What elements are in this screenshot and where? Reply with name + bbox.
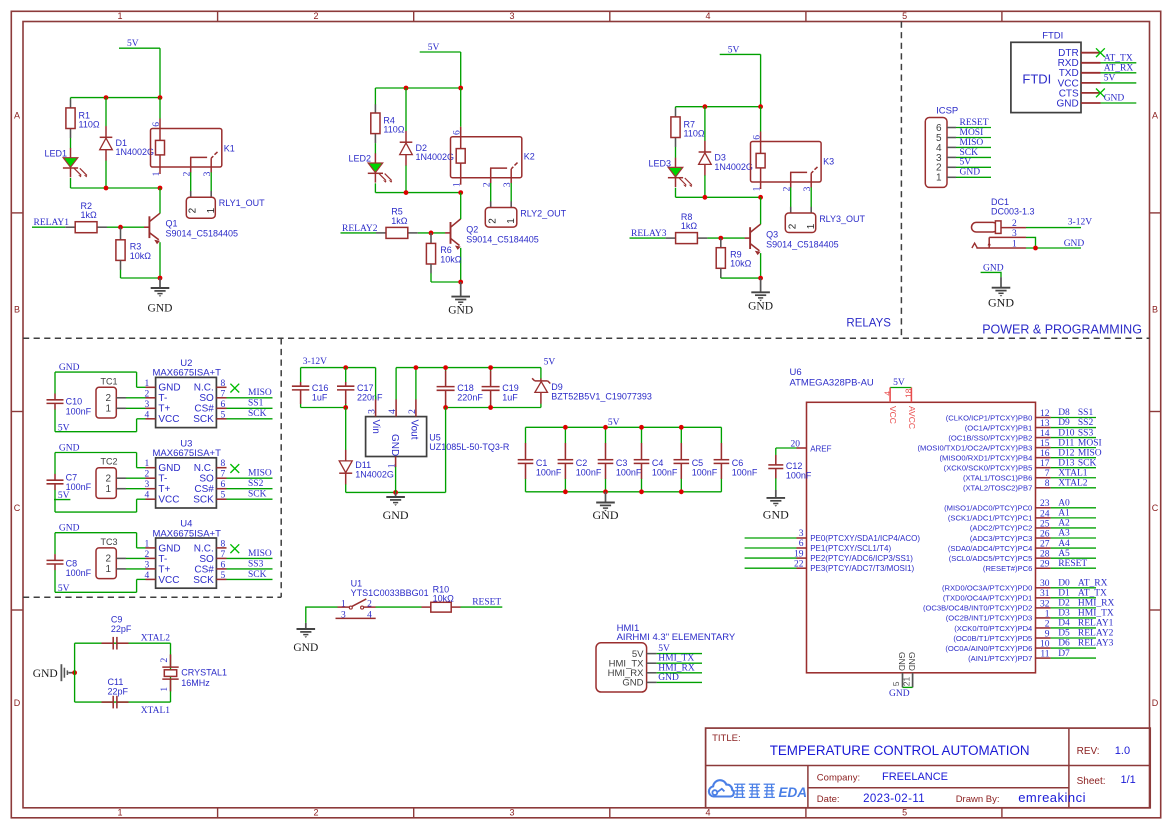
capacitor C16: [292, 368, 329, 408]
svg-text:8: 8: [1045, 479, 1050, 489]
svg-text:2: 2: [367, 599, 372, 609]
junction: [414, 365, 419, 370]
connector RLY1_OUT: [186, 191, 265, 218]
pin 1: [146, 386, 156, 388]
wire: [405, 88, 407, 131]
wire: [760, 107, 762, 132]
svg-text:A5: A5: [1058, 549, 1070, 559]
wire: [790, 187, 792, 207]
svg-text:7: 7: [221, 550, 226, 560]
svg-text:2: 2: [187, 207, 198, 213]
connector TC1: [96, 376, 126, 418]
svg-text:1: 1: [1045, 609, 1050, 619]
svg-text:Q2: Q2: [466, 224, 478, 234]
wire: [1051, 587, 1096, 589]
svg-text:SS3: SS3: [1078, 428, 1094, 438]
wire: [745, 537, 797, 539]
pin 4: [395, 399, 397, 416]
junction: [563, 425, 568, 430]
svg-text:1: 1: [145, 379, 150, 389]
svg-text:6: 6: [752, 135, 762, 140]
svg-text:2: 2: [1045, 619, 1050, 629]
svg-text:6: 6: [221, 480, 226, 490]
svg-text:HMI_RX: HMI_RX: [1078, 599, 1115, 609]
no-connect flag N.C.: [230, 544, 239, 553]
pin 3: [989, 236, 1026, 238]
relay K1: [151, 119, 235, 177]
svg-text:RLY2_OUT: RLY2_OUT: [520, 208, 566, 218]
wire: [956, 156, 991, 158]
svg-text:AT_TX: AT_TX: [1104, 53, 1133, 63]
wire: [1051, 617, 1096, 619]
wire: [1051, 597, 1096, 599]
wire: [107, 226, 144, 228]
svg-text:S9014_C5184405: S9014_C5184405: [166, 229, 239, 239]
svg-text:VCC: VCC: [158, 495, 179, 506]
svg-text:FREELANCE: FREELANCE: [882, 771, 948, 783]
svg-text:SCK: SCK: [1078, 458, 1097, 468]
svg-text:10kΩ: 10kΩ: [130, 251, 152, 261]
svg-text:(OC3B/OC4B/INT0/PTCXY)PD2: (OC3B/OC4B/INT0/PTCXY)PD2: [923, 604, 1032, 613]
pin 15 PB3: [1036, 447, 1051, 449]
junction: [429, 231, 434, 236]
wire: [776, 447, 797, 449]
pin 5 GND: [902, 673, 904, 688]
svg-text:SCK: SCK: [248, 409, 267, 419]
wire: [126, 397, 146, 399]
wire: [136, 372, 138, 387]
junction: [758, 195, 763, 200]
svg-text:ATMEGA328PB-AU: ATMEGA328PB-AU: [790, 378, 874, 389]
svg-text:2: 2: [145, 470, 150, 480]
wire: [1101, 82, 1137, 84]
svg-text:25: 25: [1040, 519, 1050, 529]
wire 5V stub: [720, 53, 761, 55]
svg-text:5: 5: [902, 11, 907, 21]
pin 3: [375, 399, 377, 416]
pin 21 GND: [912, 673, 914, 688]
svg-text:2: 2: [487, 218, 498, 224]
capacitor C8: [47, 554, 92, 578]
pin 4: [146, 418, 156, 420]
wire: [1051, 517, 1096, 519]
svg-text:5V: 5V: [544, 358, 556, 368]
wire: [190, 172, 192, 191]
pin 9 PD5: [1036, 637, 1051, 639]
wire: [74, 643, 76, 702]
svg-text:C1: C1: [536, 458, 548, 468]
svg-text:U5: U5: [429, 433, 441, 443]
svg-text:SCK: SCK: [960, 148, 979, 158]
svg-text:PE2(PTCY/ADC6/ICP3/SS1): PE2(PTCY/ADC6/ICP3/SS1): [810, 554, 913, 563]
wire: [704, 107, 706, 141]
resistor R8: [666, 212, 708, 244]
pin 2: [146, 397, 156, 399]
LED LED2: [349, 153, 393, 182]
svg-text:D7: D7: [1058, 649, 1070, 659]
svg-text:RELAY3: RELAY3: [1078, 639, 1114, 649]
svg-text:GND: GND: [383, 508, 409, 522]
pin 4 VCC: [889, 388, 891, 403]
svg-text:B: B: [1152, 305, 1158, 315]
svg-text:30: 30: [1040, 579, 1050, 589]
junction: [458, 86, 463, 91]
svg-text:D: D: [14, 698, 21, 708]
svg-text:C19: C19: [502, 383, 519, 393]
svg-text:100nF: 100nF: [616, 468, 642, 478]
resistor R1: [66, 99, 100, 138]
svg-text:(XCK0/SCK0/PTCXY)PB5: (XCK0/SCK0/PTCXY)PB5: [944, 464, 1033, 473]
pin 2: [146, 477, 156, 479]
resistor R9: [716, 238, 751, 278]
wire mid rail: [375, 192, 460, 194]
wire: [1051, 547, 1096, 549]
svg-text:HMI_RX: HMI_RX: [658, 663, 695, 673]
no-connect flag N.C.: [230, 384, 239, 393]
svg-text:D10: D10: [1058, 428, 1075, 438]
pin 7 PB6: [1036, 477, 1051, 479]
wire: [704, 175, 706, 197]
svg-text:8: 8: [221, 459, 226, 469]
pin 4: [146, 578, 156, 580]
wire: [460, 88, 462, 127]
svg-text:(OC1A/PTCXY)PB1: (OC1A/PTCXY)PB1: [965, 423, 1033, 432]
resistor R6: [426, 233, 461, 274]
wire: [301, 407, 346, 409]
svg-text:100nF: 100nF: [576, 468, 602, 478]
svg-text:D9: D9: [1058, 418, 1070, 428]
svg-text:XTAL2: XTAL2: [1058, 478, 1088, 488]
svg-text:5: 5: [221, 491, 226, 501]
wire: [490, 183, 492, 202]
resistor R4: [371, 104, 405, 143]
junction: [639, 489, 644, 494]
svg-text:3: 3: [145, 560, 150, 570]
svg-text:PE0(PTCXY/SDA1/ICP4/ACO): PE0(PTCXY/SDA1/ICP4/ACO): [810, 534, 920, 543]
svg-text:2: 2: [787, 223, 798, 229]
svg-text:MISO: MISO: [960, 138, 984, 148]
junction: [443, 365, 448, 370]
pin 6 PE1: [797, 547, 807, 549]
wire: [657, 662, 702, 664]
wire: [54, 410, 56, 432]
no-connect flag DTR: [1096, 48, 1105, 57]
wire: [1051, 527, 1096, 529]
svg-text:XTAL1: XTAL1: [141, 706, 171, 716]
wire: [374, 183, 376, 192]
svg-text:GND: GND: [389, 434, 400, 456]
svg-text:UZ1085L-50-TQ3-R: UZ1085L-50-TQ3-R: [429, 442, 510, 452]
svg-text:5: 5: [221, 410, 226, 420]
wire: [375, 368, 377, 400]
pin 3: [146, 407, 156, 409]
wire: [306, 607, 338, 623]
svg-text:(OC0B/T1/PTCXY)PD5: (OC0B/T1/PTCXY)PD5: [953, 634, 1032, 643]
ground (regulator): [383, 492, 409, 522]
svg-text:GND: GND: [158, 543, 180, 554]
connector TC3: [96, 537, 126, 579]
wire: [54, 570, 56, 592]
wire: [70, 98, 72, 100]
wire: [395, 467, 397, 493]
svg-text:GND: GND: [622, 678, 643, 689]
svg-text:4: 4: [882, 391, 892, 396]
pin 17 PB5: [1036, 467, 1051, 469]
pin 2: [415, 399, 417, 416]
svg-text:10kΩ: 10kΩ: [730, 259, 752, 269]
junction: [703, 104, 708, 109]
svg-text:(AIN1/PTCXY)PD7: (AIN1/PTCXY)PD7: [968, 654, 1032, 663]
wire: [675, 147, 677, 158]
svg-text:(ADC2/PTCY)PC2: (ADC2/PTCY)PC2: [970, 524, 1032, 533]
junction: [458, 190, 463, 195]
wire: [120, 270, 122, 278]
svg-text:6: 6: [152, 122, 162, 127]
wire: [1051, 637, 1096, 639]
svg-text:K3: K3: [823, 157, 834, 167]
junction: [158, 186, 163, 191]
capacitor C6: [714, 427, 758, 492]
relay K2: [451, 127, 535, 187]
wire: [136, 533, 138, 548]
capacitor C10: [47, 394, 92, 417]
wire: [810, 187, 812, 207]
svg-text:1: 1: [105, 564, 111, 575]
svg-text:8: 8: [221, 539, 226, 549]
wire: [956, 146, 991, 148]
svg-text:5: 5: [221, 571, 226, 581]
svg-text:1: 1: [117, 11, 122, 21]
svg-text:XTAL2: XTAL2: [141, 634, 171, 644]
svg-text:2: 2: [145, 389, 150, 399]
svg-text:GND: GND: [158, 383, 180, 394]
svg-text:1kΩ: 1kΩ: [81, 210, 98, 220]
junction: [639, 425, 644, 430]
wire: [137, 467, 146, 469]
svg-text:C17: C17: [357, 383, 374, 393]
resistor R5: [376, 207, 418, 239]
pin 19 PE2: [797, 557, 807, 559]
svg-text:15: 15: [1040, 439, 1050, 449]
wire: [227, 397, 273, 399]
svg-text:1: 1: [752, 186, 762, 191]
svg-text:AT_TX: AT_TX: [1078, 589, 1107, 599]
svg-text:S9014_C5184405: S9014_C5184405: [766, 240, 839, 250]
connector TC2: [96, 457, 126, 499]
wire: [136, 579, 138, 592]
relay K3: [751, 132, 835, 192]
wire: [126, 557, 146, 559]
svg-text:100nF: 100nF: [66, 407, 92, 417]
svg-text:GND: GND: [960, 168, 981, 178]
wire gnd rail: [346, 491, 446, 493]
svg-text:RESET: RESET: [1058, 559, 1087, 569]
svg-text:N.C.: N.C.: [194, 543, 214, 554]
svg-text:18: 18: [904, 388, 914, 398]
pin 2: [146, 557, 156, 559]
svg-text:(MOSI0/TXD1/OC2A/PTCXY)PB3: (MOSI0/TXD1/OC2A/PTCXY)PB3: [918, 443, 1033, 452]
svg-text:(XTAL1/TOSC1)PB6: (XTAL1/TOSC1)PB6: [963, 474, 1032, 483]
svg-text:T+: T+: [158, 404, 170, 415]
junction: [679, 489, 684, 494]
wire: [1051, 567, 1096, 569]
svg-text:GND: GND: [1064, 239, 1085, 249]
voltage regulator U5 UZ1085L-50-TQ3-R: [366, 399, 510, 468]
ground (power section): [988, 277, 1014, 309]
svg-text:RELAY2: RELAY2: [1078, 629, 1114, 639]
svg-text:B: B: [14, 305, 20, 315]
svg-text:A2: A2: [1058, 519, 1070, 529]
svg-text:FTDI: FTDI: [1022, 72, 1051, 87]
svg-text:12: 12: [1040, 409, 1050, 419]
pin 12 PB0: [1036, 417, 1051, 419]
wire: [126, 488, 146, 490]
wire: [136, 499, 138, 512]
svg-text:N.C.: N.C.: [194, 463, 214, 474]
capacitor C11: [102, 677, 129, 708]
svg-text:LED2: LED2: [349, 154, 372, 164]
svg-text:13: 13: [1040, 419, 1050, 429]
wire: [54, 533, 56, 555]
svg-text:27: 27: [1040, 539, 1050, 549]
svg-text:S9014_C5184405: S9014_C5184405: [466, 234, 539, 244]
pin 1 PD3: [1036, 617, 1051, 619]
svg-text:D3: D3: [1058, 609, 1070, 619]
pin 1: [976, 247, 1026, 249]
junction: [758, 104, 763, 109]
svg-text:1: 1: [117, 808, 122, 818]
pin 29 PC6: [1036, 567, 1051, 569]
diode D3 1N4002G: [699, 141, 753, 176]
svg-text:5V: 5V: [960, 158, 972, 168]
svg-text:D11: D11: [355, 460, 371, 470]
svg-text:(MISO0/RXD1/PTCXY)PB4: (MISO0/RXD1/PTCXY)PB4: [939, 453, 1032, 462]
svg-text:3-12V: 3-12V: [303, 357, 327, 367]
wire gnd rail: [526, 491, 722, 493]
junction: [758, 276, 763, 281]
svg-text:N.C.: N.C.: [194, 383, 214, 394]
wire emitter: [159, 242, 161, 278]
svg-text:GND: GND: [158, 463, 180, 474]
svg-text:3: 3: [509, 808, 514, 818]
logo JLC EDA: [709, 780, 807, 800]
wire collector: [760, 197, 762, 224]
svg-text:1: 1: [453, 182, 463, 187]
svg-text:D2: D2: [1058, 599, 1070, 609]
svg-text:YTS1C0033BBG01: YTS1C0033BBG01: [351, 588, 429, 598]
wire: [126, 568, 146, 570]
svg-text:1: 1: [145, 539, 150, 549]
svg-text:MISO: MISO: [248, 469, 272, 479]
pin 18 AVCC: [910, 388, 912, 403]
wire: [1026, 227, 1081, 229]
svg-text:1/1: 1/1: [1121, 774, 1136, 786]
svg-text:21: 21: [901, 676, 911, 686]
svg-text:XTAL1: XTAL1: [1058, 468, 1088, 478]
svg-text:1: 1: [152, 171, 162, 176]
wire collector: [159, 188, 161, 213]
pin 2 PD4: [1036, 627, 1051, 629]
wire: [418, 232, 446, 234]
pin 1: [395, 457, 397, 468]
junction: [488, 405, 493, 410]
svg-text:5: 5: [891, 681, 901, 686]
svg-text:VCC: VCC: [888, 406, 898, 424]
wire: [54, 490, 56, 512]
junction: [343, 405, 348, 410]
svg-text:Vout: Vout: [409, 420, 420, 440]
svg-text:3-12V: 3-12V: [1068, 218, 1092, 228]
wire: [55, 371, 137, 373]
wire: [1026, 237, 1036, 248]
svg-text:(ADC3/PTCY)PC3: (ADC3/PTCY)PC3: [970, 534, 1032, 543]
wire: [405, 166, 407, 193]
svg-text:4: 4: [388, 409, 398, 414]
svg-text:28: 28: [1040, 550, 1050, 560]
wire: [1051, 427, 1096, 429]
svg-text:AVCC: AVCC: [907, 406, 917, 429]
wire: [1051, 457, 1096, 459]
svg-text:C18: C18: [457, 383, 474, 393]
svg-text:TC1: TC1: [101, 376, 118, 386]
wire mid rail: [71, 187, 161, 189]
no-connect flag CTS: [1096, 89, 1105, 98]
svg-text:GND: GND: [763, 507, 789, 521]
wire: [745, 557, 797, 559]
svg-text:DC003-1.3: DC003-1.3: [991, 206, 1035, 216]
wire: [1051, 417, 1096, 419]
svg-text:MOSI: MOSI: [960, 128, 984, 138]
connector ICSP: [925, 106, 958, 188]
svg-text:6: 6: [221, 560, 226, 570]
pin 6: [216, 568, 226, 570]
wire: [55, 431, 137, 433]
svg-text:emreakinci: emreakinci: [1018, 790, 1086, 805]
svg-text:CRYSTAL1: CRYSTAL1: [181, 667, 227, 677]
svg-text:VCC: VCC: [158, 414, 179, 425]
svg-text:1: 1: [105, 404, 111, 415]
capacitor C1: [518, 427, 562, 492]
pin 7: [216, 557, 226, 559]
junction: [679, 425, 684, 430]
svg-text:100nF: 100nF: [732, 468, 758, 478]
pin 2: [1001, 227, 1026, 229]
svg-text:1: 1: [105, 484, 111, 495]
wire: [1051, 437, 1096, 439]
svg-text:1uF: 1uF: [502, 393, 518, 403]
svg-text:1N4002G: 1N4002G: [714, 162, 753, 172]
pin 4: [146, 498, 156, 500]
svg-text:AIRHMI 4.3" ELEMENTARY: AIRHMI 4.3" ELEMENTARY: [617, 632, 736, 643]
svg-text:(RESET#)PC6: (RESET#)PC6: [983, 564, 1032, 573]
svg-text:1: 1: [160, 687, 170, 692]
svg-text:(CLKO/ICP1/PTCXY)PB0: (CLKO/ICP1/PTCXY)PB0: [946, 413, 1033, 422]
ground (crystal): [33, 664, 75, 681]
svg-text:11: 11: [1040, 649, 1049, 659]
wire: [227, 418, 273, 420]
wire: [1051, 507, 1096, 509]
svg-text:RLY1_OUT: RLY1_OUT: [219, 198, 265, 208]
svg-text:C3: C3: [616, 458, 628, 468]
capacitor C2: [558, 427, 602, 492]
svg-text:AT_RX: AT_RX: [1104, 63, 1134, 73]
pin 1: [146, 467, 156, 469]
svg-text:MISO: MISO: [248, 549, 272, 559]
wire collector: [460, 193, 462, 220]
wire: [415, 368, 417, 400]
wire: [55, 532, 137, 534]
junction: [158, 95, 163, 100]
